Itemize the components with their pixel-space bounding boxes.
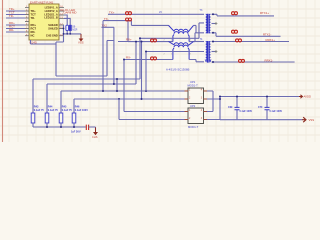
svg-text:TCT: TCT — [31, 12, 37, 16]
svg-text:RTX1-: RTX1- — [263, 32, 271, 36]
wire shield run to right — [56, 41, 114, 77]
power port VSS text — [78, 41, 84, 45]
wire rail H3 — [61, 90, 186, 113]
connector J1 pin names left — [31, 9, 37, 38]
svg-text:0.1uF 75: 0.1uF 75 — [34, 109, 45, 112]
transformer T2 left winding — [206, 42, 207, 62]
ferrite bead FB7 — [236, 39, 242, 42]
net label RD+ — [9, 21, 15, 25]
wire choke L1 out top — [194, 25, 197, 32]
power port VSS2 text — [309, 118, 315, 122]
capacitor C1 label — [71, 131, 81, 134]
svg-text:0.1uF 75: 0.1uF 75 — [48, 109, 59, 112]
connector J1 pin stubs right — [59, 8, 64, 36]
resistor R1 label — [34, 105, 45, 112]
svg-text:RRX1-: RRX1- — [265, 59, 274, 63]
net label RCT — [9, 25, 15, 29]
svg-text:TD+: TD+ — [31, 9, 37, 13]
wire LED1 anode — [64, 15, 67, 25]
svg-text:R44: R44 — [48, 105, 53, 108]
transformer T1 center tap stub right — [212, 22, 218, 25]
connector J1 RJ45 body — [29, 4, 59, 40]
net label TX- — [104, 17, 109, 21]
junction shield — [63, 28, 65, 35]
net label TD+ — [9, 7, 15, 11]
svg-text:A-4S1/S-SC1306B: A-4S1/S-SC1306B — [166, 68, 189, 72]
TVS UP1 box — [188, 88, 204, 104]
capacitor C2 branch — [235, 96, 240, 120]
svg-text:RRX1+: RRX1+ — [266, 38, 276, 42]
LED D1 dual — [66, 25, 71, 30]
transformer T1 core — [207, 14, 209, 34]
svg-text:C70: C70 — [258, 106, 263, 109]
connector J1 pin numbers — [26, 6, 64, 36]
svg-text:TX2: TX2 — [102, 24, 108, 28]
wire choke L2 out bottom — [189, 60, 204, 62]
net label TCT — [9, 11, 15, 15]
svg-text:CHS: CHS — [92, 135, 98, 139]
svg-text:TD-: TD- — [9, 14, 14, 18]
svg-text:0.1uF 100V: 0.1uF 100V — [270, 110, 283, 113]
wire T1 tap feed — [140, 23, 204, 38]
svg-text:AVDD: AVDD — [304, 95, 312, 99]
transformer T3 designator — [200, 9, 203, 12]
wire RX+ — [118, 41, 169, 43]
svg-text:R45: R45 — [62, 105, 67, 108]
power port VSS arrow — [79, 34, 84, 42]
wire choke L1 out bottom — [189, 33, 204, 42]
resistor R1 — [31, 113, 35, 127]
wire RX- tap — [145, 51, 147, 92]
svg-text:VSS: VSS — [309, 118, 315, 122]
net label RX- — [126, 56, 131, 60]
wire UP1 out bottom — [207, 97, 221, 120]
ferrite bead FB5 — [232, 12, 238, 15]
svg-text:SHILED: SHILED — [48, 23, 58, 27]
svg-text:RX+: RX+ — [126, 38, 132, 42]
transformer T2 right winding — [209, 42, 210, 62]
wire T2 out+ — [212, 41, 290, 43]
wire TX- — [103, 21, 169, 26]
net label RRX1+ — [266, 38, 276, 42]
wire TX line B — [128, 21, 173, 42]
resistor R3 — [59, 113, 63, 127]
choke L2 winding B — [173, 45, 189, 59]
svg-text:RD-: RD- — [9, 28, 14, 32]
net label TCT2 — [102, 24, 108, 28]
wire RX+ tap — [141, 41, 143, 101]
wire LED cathodes to VSS rail — [64, 31, 82, 34]
capacitor C3 branch — [265, 96, 270, 120]
wire rail H4 — [74, 98, 186, 113]
svg-text:C69: C69 — [228, 106, 233, 109]
ferrite bead FB2 — [126, 18, 132, 21]
capacitor C3 label — [258, 106, 282, 113]
connector J1 designator RJ45 — [30, 41, 38, 45]
wire shield bus vertical — [31, 25, 64, 76]
wire LED2 anode — [64, 18, 70, 25]
svg-text:1uF 2KV: 1uF 2KV — [71, 131, 81, 134]
capacitor C1 series — [86, 125, 88, 130]
wire rail H2 — [47, 41, 137, 113]
net label RX+ — [126, 38, 132, 42]
power port AVDD arrow — [299, 95, 303, 98]
svg-text:LED0Y2_A: LED0Y2_A — [45, 9, 58, 13]
note LED text — [61, 8, 77, 15]
grid (decorative) — [0, 0, 320, 142]
svg-text:0.1uF 100V: 0.1uF 100V — [75, 109, 88, 112]
wire TD- — [6, 17, 25, 19]
wire TD+ — [6, 10, 25, 12]
svg-text:RCT: RCT — [31, 26, 37, 30]
svg-text:UP2: UP2 — [190, 104, 196, 108]
wire RD- — [6, 31, 25, 33]
ferrite bead FB3 — [151, 39, 157, 42]
net label TD- — [9, 14, 14, 18]
wire TX tap — [102, 27, 114, 84]
svg-text:RX-: RX- — [126, 56, 131, 60]
svg-text:NCR: NCR — [72, 28, 77, 31]
wire box2 pin1 feed — [123, 59, 186, 112]
transformer T2 center tap stub right — [212, 50, 218, 53]
wire rail H1 — [33, 37, 141, 113]
chassis ground arrow — [93, 128, 98, 136]
svg-text:UP1: UP1 — [190, 80, 196, 84]
ferrite bead FB6 — [232, 30, 238, 33]
junction LED cathode — [66, 33, 71, 35]
connector J1 title — [30, 0, 53, 4]
power port VSS2 arrow — [302, 117, 306, 122]
TVS UP1 pin numbers — [189, 90, 203, 100]
net label RTX1- — [263, 32, 271, 36]
wire RX- — [124, 59, 173, 61]
svg-text:RTX1+: RTX1+ — [260, 11, 269, 15]
ferrite bead FB8 — [239, 59, 245, 62]
svg-text:LED1G1_A: LED1G1_A — [44, 12, 58, 16]
svg-text:R46: R46 — [75, 105, 80, 108]
svg-text:TX-: TX- — [104, 17, 109, 21]
wire T2 tap feed — [146, 51, 204, 53]
svg-text:LED0Y1_A: LED0Y1_A — [45, 6, 58, 10]
svg-text:MOD1-T: MOD1-T — [188, 84, 199, 88]
wire UP1 out top — [207, 91, 213, 112]
svg-text:0.1uF 100V: 0.1uF 100V — [240, 110, 253, 113]
svg-text:R43: R43 — [34, 105, 39, 108]
svg-text:DAR8 MD: DAR8 MD — [64, 11, 77, 15]
resistor R4 — [72, 113, 76, 127]
wire bottom common — [33, 126, 86, 128]
TVS UP1 label — [188, 80, 199, 87]
choke L1 winding B — [173, 32, 189, 42]
svg-text:TD-: TD- — [31, 16, 36, 20]
wire T1 out+ — [212, 13, 275, 16]
net label RD- — [9, 28, 14, 32]
wire RCT — [6, 28, 25, 30]
wire choke L2 out top — [194, 41, 205, 43]
connector J1 pin stubs left — [25, 8, 29, 36]
wire TX+ top — [108, 13, 204, 15]
svg-text:VSS: VSS — [78, 41, 84, 45]
net label RTX1+ — [260, 11, 269, 15]
TVS UP2 pins — [185, 112, 208, 120]
capacitor C2 label — [228, 106, 252, 113]
wire cap to chassis — [89, 127, 96, 131]
wire RD+ — [6, 24, 25, 26]
svg-text:TX+: TX+ — [109, 10, 115, 14]
net label RRX1- — [265, 59, 274, 63]
transformer T2 core — [207, 41, 209, 63]
resistor R4 label — [75, 105, 88, 112]
resistor R2 — [45, 113, 49, 127]
svg-text:0.1uF 75: 0.1uF 75 — [62, 109, 73, 112]
svg-text:LED1G1_B: LED1G1_B — [44, 16, 58, 20]
net label TX+ — [109, 10, 115, 14]
wire box2 pin2 feed — [119, 99, 186, 120]
sheet border — [2, 0, 4, 142]
wire T2 out- — [212, 61, 295, 63]
resistor R3 label — [62, 105, 73, 112]
power port AVDD text — [304, 95, 312, 99]
part number text — [166, 68, 189, 72]
svg-text:RD-: RD- — [31, 30, 36, 34]
choke L2 winding A — [169, 42, 194, 46]
choke L2 pin marks — [164, 54, 192, 56]
wire T1 out- — [212, 32, 281, 37]
svg-text:SHILED: SHILED — [48, 26, 58, 30]
wire TX- tap long — [102, 21, 104, 91]
svg-text:RD+: RD+ — [31, 23, 37, 27]
transformer T1 left winding — [206, 14, 207, 33]
svg-text:MOD1-T: MOD1-T — [188, 125, 199, 129]
TVS UP2 pin numbers — [189, 110, 203, 120]
wire rail H1 drop — [116, 78, 118, 91]
inductor L5 designator — [159, 11, 162, 14]
transformer T1 right winding — [209, 14, 210, 33]
choke L1 pin marks — [164, 40, 192, 42]
ferrite bead FB1 — [126, 12, 132, 15]
TVS UP1 pins — [185, 91, 208, 99]
wire TCT — [6, 14, 25, 16]
transformer T4 designator — [200, 38, 203, 41]
TVS UP2 box — [188, 108, 204, 124]
choke L1 winding A — [169, 25, 194, 32]
wire VSS rail bottom — [220, 119, 302, 121]
chassis ground text — [92, 135, 98, 139]
LED D1 labels — [72, 25, 77, 31]
resistor R2 label — [48, 105, 59, 112]
wire AVDD rail — [219, 96, 299, 98]
ferrite bead FB4 — [151, 57, 157, 60]
svg-text:CHS GND: CHS GND — [46, 34, 58, 38]
svg-text:EARTHNET-RJ45: EARTHNET-RJ45 — [30, 0, 53, 4]
svg-text:NC: NC — [31, 34, 35, 38]
TVS UP2 label — [188, 104, 199, 129]
connector J1 pin names right — [44, 6, 58, 38]
